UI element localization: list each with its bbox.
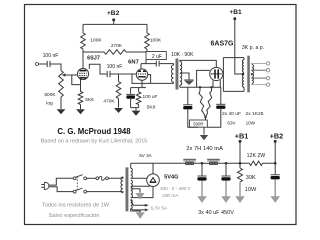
resistor R11 30K body xyxy=(238,168,243,182)
wire HV bottom to plate xyxy=(131,186,153,197)
svg-text:5K6: 5K6 xyxy=(85,97,94,103)
wire 5K8 top lead xyxy=(138,88,140,92)
wire 5V bottom to filament xyxy=(131,177,147,179)
resistor R8 1K25 body xyxy=(199,91,204,113)
wire mains lower xyxy=(49,187,73,192)
wire +B1 out xyxy=(239,141,241,163)
svg-text:+B1: +B1 xyxy=(235,132,249,141)
output terminal 1 xyxy=(266,62,269,65)
svg-text:+B1: +B1 xyxy=(229,9,242,16)
wire 100K R2 top lead xyxy=(82,24,84,33)
wire 6SJ7 suppressor tie xyxy=(72,75,81,85)
wire T2 secondary tap 3 xyxy=(251,77,266,79)
wire C2 to 470K node xyxy=(110,73,119,75)
ground cap1 xyxy=(201,181,203,197)
node cathode right xyxy=(210,86,212,88)
tube V3 6AS7G internals xyxy=(215,69,218,78)
svg-text:10W: 10W xyxy=(245,187,257,193)
switch S1b xyxy=(73,190,76,193)
wire T2 secondary tap 4 xyxy=(251,84,266,86)
ground 470K xyxy=(114,108,123,113)
wire cap3 lead xyxy=(274,163,276,175)
svg-text:270K: 270K xyxy=(111,43,123,49)
svg-text:100 nF: 100 nF xyxy=(43,53,59,59)
wire 6SJ7 screen path xyxy=(89,64,107,74)
svg-text:400 - 0 - 400 V: 400 - 0 - 400 V xyxy=(160,186,191,191)
tube V1 6SJ7 envelope xyxy=(77,68,88,79)
svg-text:6,3V 5A: 6,3V 5A xyxy=(150,206,168,211)
wire cathode ground bus xyxy=(131,108,139,111)
transformer T2 primary winding lower xyxy=(242,75,244,88)
wire R8 to V point xyxy=(203,113,205,118)
resistor R9 1K25 lead xyxy=(211,87,213,91)
svg-text:2x 1K25: 2x 1K25 xyxy=(246,111,264,117)
wire 470K lead xyxy=(118,74,120,82)
node +B1 out xyxy=(239,140,242,143)
svg-text:30K: 30K xyxy=(246,175,256,181)
wire pot to ground xyxy=(60,97,62,109)
wire 5K8 bottom lead xyxy=(138,105,140,108)
wire T1 primary top lead xyxy=(173,64,175,65)
choke L1 7H xyxy=(183,158,196,160)
wire T1 primary bottom lead xyxy=(173,82,175,83)
resistor R6 470K xyxy=(116,82,121,99)
resistor R9 1K25 body xyxy=(207,91,212,113)
wire right 40uF lead xyxy=(220,87,222,104)
svg-text:100 uF: 100 uF xyxy=(143,94,158,100)
capacitor C3 plates xyxy=(156,61,159,67)
svg-text:5K8: 5K8 xyxy=(147,104,156,110)
tube V1 6SJ7 internals xyxy=(80,70,87,72)
border frame xyxy=(25,5,297,225)
wire T2 secondary tap 1 xyxy=(251,62,266,64)
wire to 6N7 grid xyxy=(119,73,137,75)
wire fuse to T3 primary xyxy=(108,177,123,178)
heater arrow a xyxy=(145,204,149,207)
capacitor C2 100nF plates xyxy=(107,71,110,77)
ground 6N7 cathode xyxy=(132,111,141,116)
capacitor C3 2uF box xyxy=(146,52,166,60)
svg-text:6AS7G: 6AS7G xyxy=(211,40,235,47)
resistor R12 12K body xyxy=(249,161,262,165)
wire switch to fuse xyxy=(87,177,96,179)
wire left 40uF to node xyxy=(188,109,198,127)
wire 100uF bottom lead xyxy=(130,99,132,108)
wire 6N7 grid loop xyxy=(132,74,174,83)
wire 6V3 lead a xyxy=(131,200,146,206)
wire +B1 down to CT xyxy=(235,19,244,74)
wire V point to 500R xyxy=(205,117,207,120)
wire 100K R2 bottom lead xyxy=(82,49,84,52)
capacitor C8 40uF xyxy=(221,175,230,177)
ground cap3 xyxy=(274,179,276,196)
wire 100K R5 bottom lead xyxy=(146,49,148,52)
wire HV top to plate xyxy=(131,185,150,187)
wire plate2 to primary bottom xyxy=(223,90,244,92)
wire 100uF top lead xyxy=(130,88,132,94)
wire mains upper xyxy=(49,178,73,185)
wire +B2 out xyxy=(274,141,276,163)
wire 2uF box to plate line xyxy=(145,60,147,64)
svg-text:Todos los resistores de 1W: Todos los resistores de 1W xyxy=(42,202,110,208)
wire 6N7 cathode lead xyxy=(141,80,143,87)
pot wiper arrow xyxy=(64,74,66,76)
svg-text:500K: 500K xyxy=(44,92,56,98)
capacitor C1 100nF xyxy=(47,61,50,67)
transformer T3 primary winding xyxy=(121,177,123,193)
mains plug P1 xyxy=(44,182,49,189)
node filter cap1 xyxy=(201,162,204,165)
node B2 rail xyxy=(274,162,277,165)
node B1 rail xyxy=(239,162,242,165)
wire 6AS7G plates xyxy=(222,58,224,92)
wire 5V top to rail xyxy=(130,163,132,168)
ground cap2 xyxy=(225,181,227,197)
wire cathode rail xyxy=(180,86,221,88)
ground pot xyxy=(57,109,66,114)
wire B+ rail xyxy=(131,162,276,164)
tube V2 6N7 envelope xyxy=(136,69,147,80)
svg-text:5V 3A: 5V 3A xyxy=(139,153,152,158)
capacitor C6 40uF xyxy=(216,103,225,105)
svg-text:12K 2W: 12K 2W xyxy=(247,153,266,159)
svg-text:100K: 100K xyxy=(90,38,102,44)
transformer T1 primary winding xyxy=(171,65,173,82)
switch S1a xyxy=(73,177,76,180)
wire T2 primary bottom lead xyxy=(243,87,245,91)
output terminal 3 xyxy=(266,76,269,79)
wire plate node to 270K xyxy=(83,51,104,53)
svg-text:470K: 470K xyxy=(103,99,115,105)
tube V2 6N7 internals xyxy=(138,70,146,72)
choke L2 7H xyxy=(207,158,220,160)
ground T1 secondary xyxy=(184,79,194,81)
svg-text:6N7: 6N7 xyxy=(128,60,139,66)
node filter cap2 xyxy=(225,162,228,165)
wire switch to T3 primary low xyxy=(87,192,123,193)
svg-text:2 uF: 2 uF xyxy=(152,54,162,60)
wire 6AS7G grid2 return xyxy=(197,70,210,87)
svg-text:500R: 500R xyxy=(193,121,203,126)
svg-text:Salvo especificación: Salvo especificación xyxy=(49,213,100,219)
resistor R2 100K xyxy=(81,33,86,49)
wire T1 secondary bottom lead xyxy=(179,85,181,87)
svg-text:100K: 100K xyxy=(150,38,162,44)
capacitor C4 100uF xyxy=(126,93,135,95)
wire plate1 to primary top xyxy=(223,57,244,59)
wire 6N7 plate line xyxy=(141,63,174,65)
capacitor C9 40uF xyxy=(271,174,280,176)
resistor R10 500R box xyxy=(190,120,208,127)
wire 6N7 cathode rail xyxy=(131,87,146,89)
transformer T3 sec 5V xyxy=(131,168,133,178)
wire 6SJ7 cathode lead xyxy=(80,79,82,92)
transformer T3 sec 6V3 xyxy=(131,200,133,209)
wire input to C1 xyxy=(39,63,48,65)
ground 500R xyxy=(200,135,208,140)
wire 100K R5 top lead xyxy=(146,24,148,33)
wire 470K to ground xyxy=(118,99,120,108)
capacitor C5 40uF xyxy=(183,104,192,106)
wire HV center tap xyxy=(131,189,140,192)
output terminal 4 xyxy=(266,83,269,86)
svg-text:10K : 90K: 10K : 90K xyxy=(171,52,194,58)
transformer T3 sec HV xyxy=(131,180,133,197)
svg-text:C. G. McProud 1948: C. G. McProud 1948 xyxy=(57,127,131,136)
svg-text:5V4G: 5V4G xyxy=(164,175,178,181)
wire cap2 lead xyxy=(225,163,227,176)
tube V3 6AS7G envelope xyxy=(210,67,223,80)
svg-text:3K p. a p.: 3K p. a p. xyxy=(242,45,264,51)
switch gang link xyxy=(76,177,78,192)
resistor R7 5K8 xyxy=(136,92,141,105)
wire 6V3 lead b xyxy=(131,209,146,210)
resistor R11 30K lead xyxy=(239,163,241,168)
wire C1 to pot xyxy=(50,64,61,71)
wire 6AS7G cathode leads xyxy=(213,80,220,87)
wire left 40uF lead xyxy=(187,87,189,105)
svg-text:+B2: +B2 xyxy=(107,10,120,17)
node cathode left xyxy=(199,86,201,88)
transformer T2 tap arrow xyxy=(251,73,254,76)
transformer T2 core xyxy=(247,56,250,93)
transformer T1 core xyxy=(176,59,179,90)
ground 6SJ7 cathode xyxy=(76,109,85,114)
wire 6N7 plate riser xyxy=(140,64,142,69)
wire 270K to 2uF box xyxy=(126,51,146,53)
tube V4 5V4G envelope xyxy=(147,174,160,187)
svg-text:10W: 10W xyxy=(246,120,256,125)
svg-text:63V: 63V xyxy=(227,120,236,125)
output terminal 2 xyxy=(266,69,269,72)
svg-text:2x 40 uF: 2x 40 uF xyxy=(222,111,241,117)
svg-text:Based on a redrawn by Kurt Lil: Based on a redrawn by Kurt Lilienthal, 2… xyxy=(41,139,148,145)
node CT xyxy=(242,73,245,76)
wire T2 primary top lead xyxy=(243,58,245,60)
wire 6SJ7 anode lead xyxy=(82,52,84,68)
wire T1 secondary top to grid xyxy=(180,60,216,67)
svg-text:log: log xyxy=(46,101,53,107)
heater arrow b xyxy=(145,208,149,211)
transformer T2 primary winding upper xyxy=(242,60,244,73)
node +B2 out xyxy=(274,140,277,143)
resistor R8 1K25 lead xyxy=(199,87,201,91)
potentiometer P1 500K xyxy=(59,71,64,98)
svg-text:100 nF: 100 nF xyxy=(107,64,123,70)
wire 6V3 bottom to ground xyxy=(131,209,141,213)
wire wiper to 6SJ7 grid xyxy=(65,74,78,76)
input terminal J1 xyxy=(36,63,39,66)
transformer T2 secondary winding xyxy=(252,65,254,84)
resistor R4 5K6 xyxy=(78,92,83,105)
svg-text:200 mA: 200 mA xyxy=(162,193,179,198)
wire 500R to ground xyxy=(203,127,205,134)
ground transformer xyxy=(136,212,145,219)
svg-text:6SJ7: 6SJ7 xyxy=(87,56,100,62)
wire R9 to V point xyxy=(206,113,208,118)
wire right 40uF to node xyxy=(207,109,221,127)
wire T1 secondary tap to ground xyxy=(180,73,189,80)
wire +B2 stem xyxy=(113,20,115,25)
node +B1 top xyxy=(233,17,236,20)
node +B2 top xyxy=(112,18,115,21)
svg-text:3x 40 uF 450V: 3x 40 uF 450V xyxy=(198,210,234,216)
tube V4 5V4G internals xyxy=(150,178,156,182)
resistor R5 100K xyxy=(145,33,150,49)
ground HV center tap xyxy=(139,191,141,194)
wire 5K6 to ground xyxy=(80,105,82,110)
svg-text:2x 7H 140 mA: 2x 7H 140 mA xyxy=(186,146,223,152)
wire 5V4G cathode to rail xyxy=(152,163,154,174)
svg-text:+B2: +B2 xyxy=(270,132,284,141)
transformer T3 core xyxy=(126,167,129,211)
capacitor C7 40uF xyxy=(197,175,206,177)
wire T2 secondary tap 2 xyxy=(251,69,266,71)
transformer T1 secondary winding xyxy=(180,62,182,86)
fuse F1 xyxy=(96,177,99,180)
wire cap1 lead xyxy=(201,163,203,176)
resistor R3 270K xyxy=(104,50,126,55)
node bias V point xyxy=(204,116,206,118)
wire top rail xyxy=(83,23,147,25)
ground 30K xyxy=(239,182,241,197)
